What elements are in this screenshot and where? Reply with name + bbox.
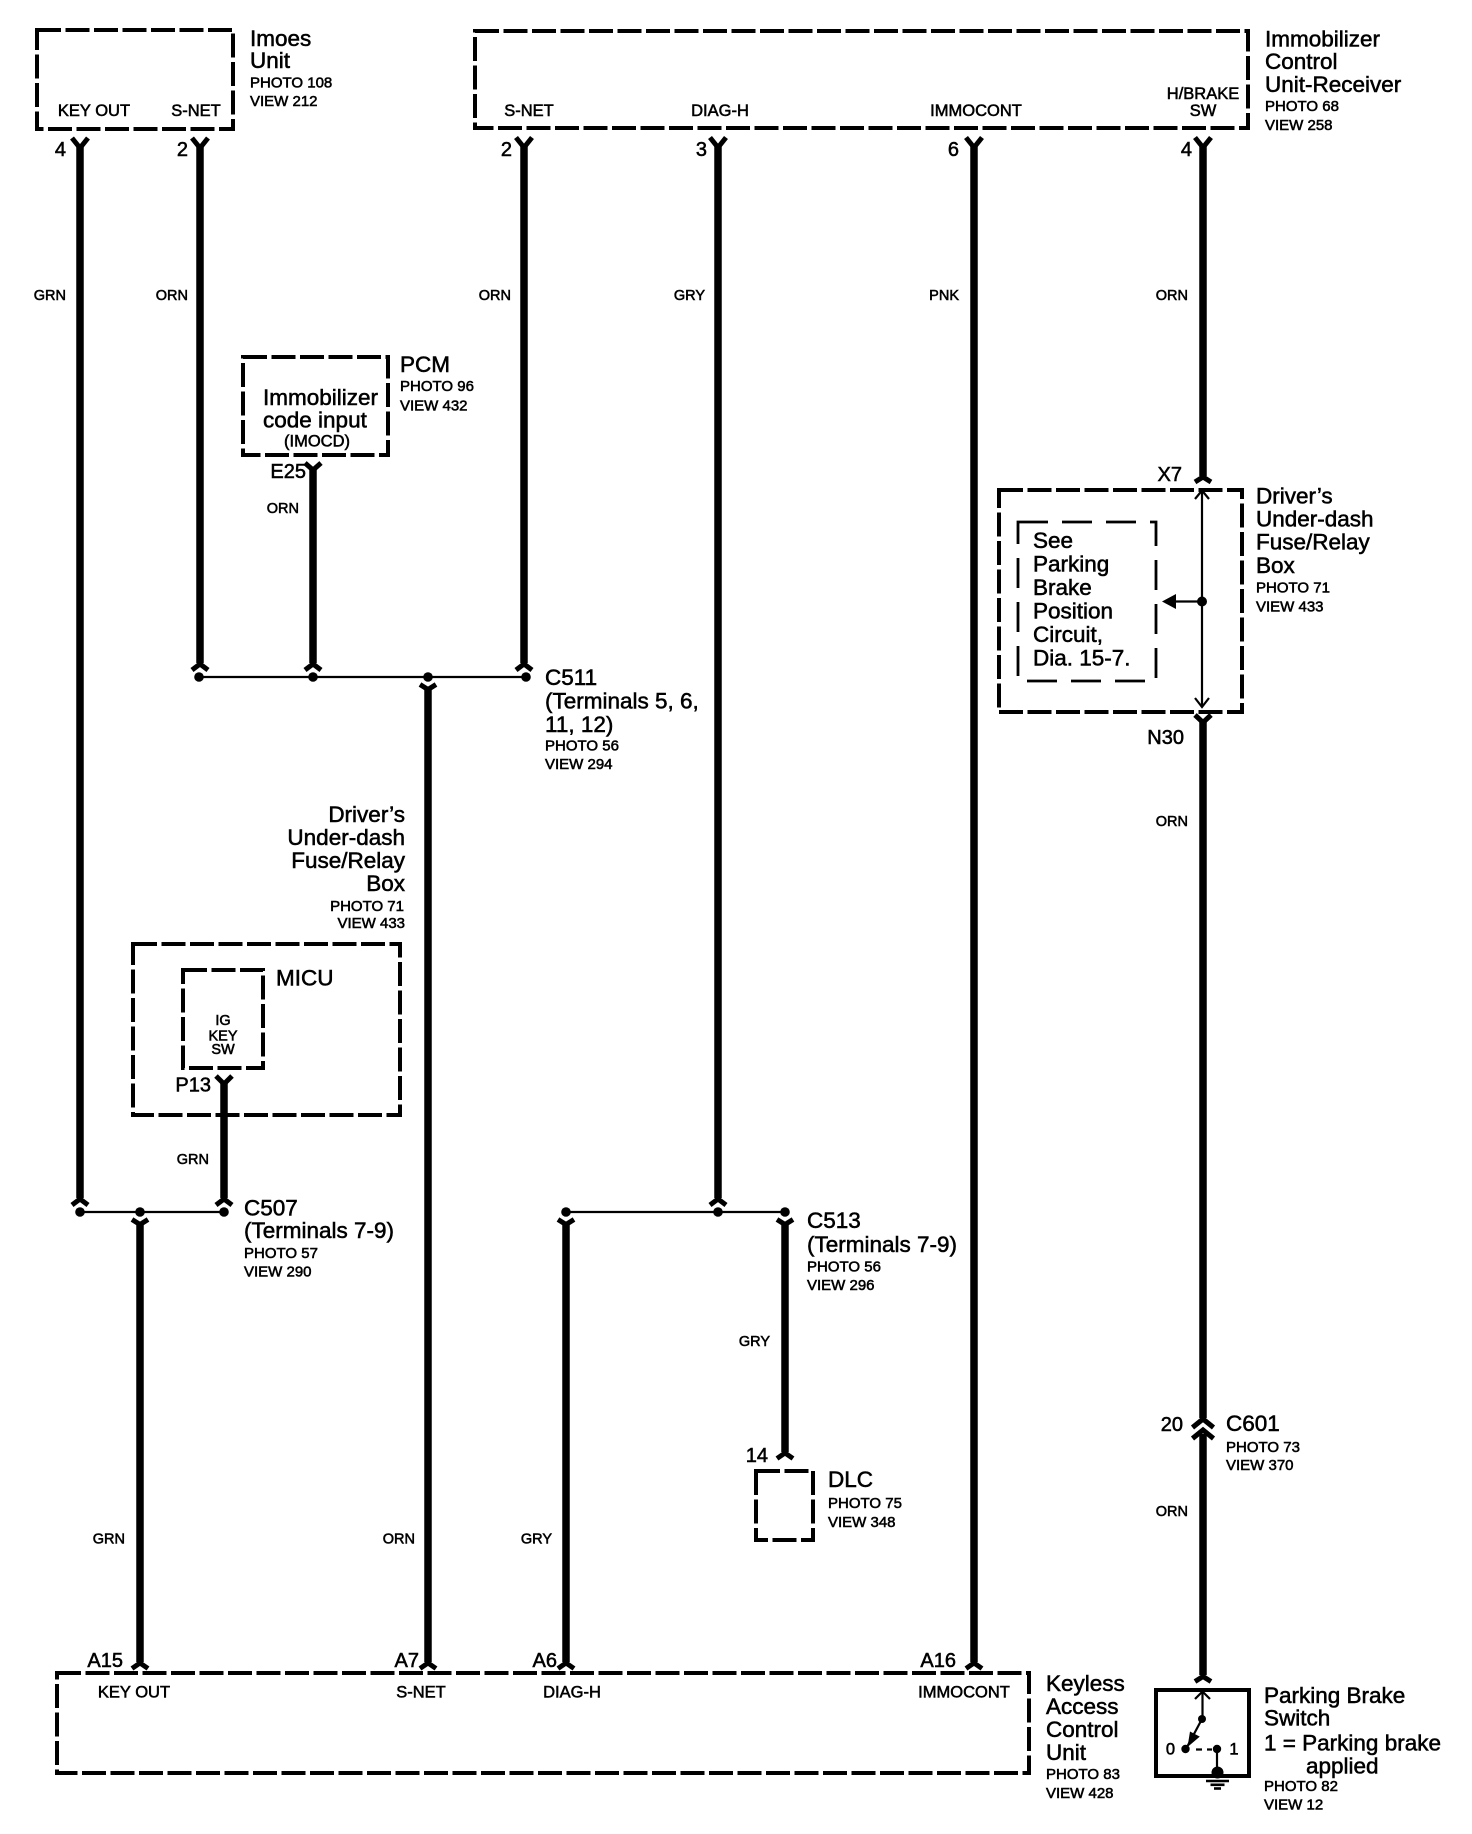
svg-text:(Terminals 7-9): (Terminals 7-9) [807,1232,957,1257]
svg-text:Position: Position [1033,599,1113,624]
C601 connector label [1226,1411,1300,1474]
switch dashed link [1196,1748,1212,1750]
svg-text:DIAG-H: DIAG-H [691,102,749,120]
svg-text:2: 2 [177,139,188,161]
svg-text:GRN: GRN [177,1152,209,1168]
wire from C507 down to A15 [136,1223,144,1662]
svg-text:Dia. 15-7.: Dia. 15-7. [1033,646,1131,671]
wire from C513 down to A6 [562,1223,570,1662]
switch lever arrowhead [1188,1732,1200,1748]
Parking brake switch title label [1264,1683,1441,1814]
svg-text:VIEW 348: VIEW 348 [828,1514,896,1531]
C511 wire-end arrow at x200 [192,664,208,670]
svg-text:ORN: ORN [1156,814,1188,830]
A16 wire-end arrow [966,1663,982,1669]
svg-text:A6: A6 [533,1650,557,1672]
DLC wire-end arrow [777,1453,793,1459]
svg-text:PHOTO 57: PHOTO 57 [244,1245,318,1262]
svg-text:VIEW 433: VIEW 433 [337,915,405,932]
svg-text:Unit: Unit [250,48,291,73]
svg-text:DIAG-H: DIAG-H [543,1684,601,1702]
switch pivot dot [1198,1715,1206,1723]
svg-text:ORN: ORN [267,501,299,517]
MICU inner label IG KEY SW [208,1013,237,1058]
svg-text:PNK: PNK [929,288,959,304]
switch internal top line with up arrow [1195,1692,1210,1720]
svg-text:Switch: Switch [1264,1706,1330,1731]
svg-text:VIEW 433: VIEW 433 [1256,599,1324,616]
svg-text:PHOTO 108: PHOTO 108 [250,75,332,92]
svg-text:C511: C511 [545,665,597,690]
Imoes Unit title label [250,26,332,110]
svg-text:3: 3 [696,139,707,161]
svg-text:Immobilizer: Immobilizer [263,385,379,410]
C507 wire-end arrow at x224 [216,1199,232,1205]
svg-text:GRY: GRY [739,1334,770,1350]
wire ORN from receiver H/BRAKE SW pin 4 [1199,145,1207,477]
svg-text:PHOTO 75: PHOTO 75 [828,1495,902,1512]
svg-text:ORN: ORN [1156,288,1188,304]
svg-text:PHOTO 83: PHOTO 83 [1046,1766,1120,1783]
svg-text:KEY OUT: KEY OUT [98,1684,170,1702]
svg-text:See: See [1033,528,1073,553]
ground connection dot [1212,1767,1224,1779]
svg-text:Immobilizer: Immobilizer [1265,27,1381,52]
C507 junction dot right [219,1207,229,1217]
svg-text:4: 4 [55,139,66,161]
svg-text:2: 2 [501,139,512,161]
svg-text:PHOTO 71: PHOTO 71 [330,898,404,915]
svg-text:14: 14 [746,1445,768,1467]
svg-text:0: 0 [1166,1741,1175,1759]
C511 wire-end arrow at x313 [305,664,321,670]
svg-text:PHOTO 96: PHOTO 96 [400,378,474,395]
svg-text:1: 1 [1229,1741,1238,1759]
svg-text:Parking Brake: Parking Brake [1264,1683,1405,1708]
svg-text:Parking: Parking [1033,552,1109,577]
C511 junction dot at output wire [423,672,433,682]
internal arrow to parking brake circuit note [1162,594,1202,609]
svg-text:Keyless: Keyless [1046,1671,1125,1696]
DLC box [756,1471,813,1540]
Receiver title label [1265,27,1402,135]
node C513 junction line [565,1211,786,1213]
wire from C511 down to A7 [424,688,432,1662]
svg-text:VIEW 258: VIEW 258 [1265,117,1333,134]
svg-text:A16: A16 [920,1650,956,1672]
svg-text:Access: Access [1046,1694,1119,1719]
svg-text:Under-dash: Under-dash [287,825,405,850]
MICU pin P13 connector arrow [216,1076,232,1084]
PCM pin E25 connector arrow [305,463,321,470]
svg-text:S-NET: S-NET [396,1684,446,1702]
C511 junction dot left [194,672,204,682]
svg-text:PHOTO 82: PHOTO 82 [1264,1778,1338,1795]
C511 output arrow down [420,685,436,690]
Parking brake switch box [1156,1690,1249,1776]
left fuse/relay box title label [287,802,405,932]
svg-text:PHOTO 56: PHOTO 56 [807,1259,881,1276]
Driver's under-dash fuse/relay box (left) [133,944,400,1115]
svg-text:H/BRAKE: H/BRAKE [1167,85,1239,103]
svg-text:VIEW 296: VIEW 296 [807,1277,875,1294]
svg-text:S-NET: S-NET [504,102,554,120]
right fuse box title label [1256,484,1374,616]
svg-text:X7: X7 [1158,464,1182,486]
svg-text:4: 4 [1181,139,1192,161]
switch contact 1 dot [1213,1745,1221,1753]
svg-text:SW: SW [1190,102,1217,120]
C513 junction dot right [780,1207,790,1217]
svg-text:GRN: GRN [93,1532,125,1548]
connector C601 double arrow [1193,1419,1214,1439]
Receiver pin 6 connector arrow [966,138,982,148]
node C511 junction line [199,676,526,678]
Driver's under-dash fuse/relay box (right) [999,490,1242,712]
svg-text:VIEW 432: VIEW 432 [400,398,468,415]
ground symbol [1206,1781,1229,1789]
C507 junction dot left [75,1207,85,1217]
svg-text:GRY: GRY [674,288,705,304]
svg-text:Brake: Brake [1033,575,1092,600]
wire GRY from receiver DIAG-H pin 3 [714,145,722,1199]
A6 wire-end arrow [558,1663,574,1669]
wire GRY from C513 to DLC [781,1223,789,1452]
svg-text:C507: C507 [244,1196,298,1221]
Imoes pin 4 connector arrow [72,138,88,148]
svg-text:ORN: ORN [1156,1504,1188,1520]
svg-text:S-NET: S-NET [171,102,221,120]
svg-text:KEY OUT: KEY OUT [58,102,130,120]
svg-text:IG: IG [215,1013,230,1029]
svg-text:Box: Box [366,871,406,896]
svg-text:VIEW 370: VIEW 370 [1226,1457,1294,1474]
Receiver pin 2 connector arrow [516,138,532,148]
Imoes Unit U1 box [37,30,233,129]
C513 connector label [807,1208,957,1294]
C507 output arrow down [132,1220,148,1225]
C511 connector label [545,665,699,773]
wire ORN from PCM E25 [309,468,317,663]
svg-text:Control: Control [1265,49,1338,74]
svg-text:P13: P13 [175,1075,211,1097]
svg-text:A15: A15 [87,1650,123,1672]
svg-text:Unit: Unit [1046,1740,1087,1765]
svg-text:GRN: GRN [34,288,66,304]
svg-text:C513: C513 [807,1208,861,1233]
N30 connector arrow [1195,715,1211,723]
see parking brake note text [1033,528,1131,671]
svg-text:PCM: PCM [400,352,450,377]
svg-text:Control: Control [1046,1717,1119,1742]
switch lever [1187,1719,1203,1748]
wire ORN from C601 down [1199,1434,1207,1675]
svg-text:Driver’s: Driver’s [1256,484,1333,509]
Receiver pin 3 connector arrow [710,138,726,148]
svg-text:ORN: ORN [479,288,511,304]
svg-text:PHOTO 68: PHOTO 68 [1265,98,1339,115]
wire ORN from receiver S-NET pin 2 [520,145,528,664]
A7 wire-end arrow [420,1663,436,1669]
X7 wire-end arrow [1195,477,1211,482]
Receiver pin label H/BRAKE SW [1167,85,1239,120]
svg-text:Circuit,: Circuit, [1033,622,1103,647]
C507 connector label [244,1196,394,1281]
svg-text:Fuse/Relay: Fuse/Relay [1256,530,1371,555]
svg-text:VIEW 428: VIEW 428 [1046,1785,1114,1802]
svg-text:C601: C601 [1226,1411,1280,1436]
svg-text:VIEW 294: VIEW 294 [545,756,613,773]
switch contact 0 dot [1181,1745,1189,1753]
svg-text:SW: SW [211,1042,235,1058]
svg-text:VIEW 12: VIEW 12 [1264,1797,1323,1814]
PCM title label [400,352,474,415]
svg-text:20: 20 [1161,1414,1183,1436]
wire PNK from receiver IMMOCONT pin 6 [970,145,978,1663]
svg-text:Driver’s: Driver’s [328,802,405,827]
C511 junction dot at E25 wire [308,672,318,682]
wire ORN from Imoes pin 2 [196,145,204,663]
svg-text:Unit-Receiver: Unit-Receiver [1265,72,1402,97]
svg-text:N30: N30 [1147,727,1184,749]
C513 junction dot middle [713,1207,723,1217]
C513 junction dot left [561,1207,571,1217]
C507 wire-end arrow at x80 [72,1199,88,1205]
svg-text:IMMOCONT: IMMOCONT [930,102,1022,120]
wire GRN from Imoes pin 4 [76,145,84,1198]
Keyless Access Control Unit box [57,1673,1029,1773]
C511 wire-end arrow at x524 [516,664,532,670]
svg-text:1 = Parking brake: 1 = Parking brake [1264,1731,1441,1756]
svg-text:VIEW 290: VIEW 290 [244,1264,312,1281]
svg-text:(Terminals 7-9): (Terminals 7-9) [244,1218,394,1243]
C513 output arrow down right [777,1220,793,1225]
svg-text:IMMOCONT: IMMOCONT [918,1684,1010,1702]
svg-text:Under-dash: Under-dash [1256,507,1374,532]
wire GRN from P13 [220,1081,228,1198]
svg-text:Fuse/Relay: Fuse/Relay [291,848,406,873]
C513 wire-end arrow at x718 [710,1199,726,1205]
svg-text:applied: applied [1306,1754,1379,1779]
PCM box [243,357,388,455]
A15 wire-end arrow [132,1663,148,1669]
svg-text:DLC: DLC [828,1467,873,1492]
C507 junction dot middle [135,1207,145,1217]
svg-text:E25: E25 [270,461,306,483]
MICU box [183,970,263,1068]
wire ORN from N30 down [1199,720,1207,1418]
svg-text:PHOTO 56: PHOTO 56 [545,738,619,755]
svg-text:11, 12): 11, 12) [545,712,613,737]
svg-text:ORN: ORN [156,288,188,304]
svg-text:code input: code input [263,408,368,433]
see parking brake note box [1018,522,1156,681]
fuse box internal line with arrows [1195,491,1209,708]
C513 output arrow down left [558,1220,574,1225]
node C507 junction line [79,1211,225,1213]
switch wire to ground [1216,1749,1218,1770]
Imoes pin 2 connector arrow [192,138,208,148]
svg-text:MICU: MICU [276,966,334,991]
svg-text:GRY: GRY [521,1532,552,1548]
svg-text:VIEW 212: VIEW 212 [250,93,318,110]
svg-text:6: 6 [948,139,959,161]
svg-text:A7: A7 [395,1650,419,1672]
svg-text:(IMOCD): (IMOCD) [284,433,350,451]
DLC title label [828,1467,902,1531]
Receiver pin 4 connector arrow [1195,138,1211,148]
PCM inner label Immobilizer code input (IMOCD) [263,385,379,451]
svg-text:ORN: ORN [383,1532,415,1548]
keyless title label [1046,1671,1125,1802]
svg-text:PHOTO 71: PHOTO 71 [1256,580,1330,597]
Parking brake switch S1 arrow into box [1195,1677,1211,1682]
svg-text:PHOTO 73: PHOTO 73 [1226,1439,1300,1456]
svg-text:Box: Box [1256,553,1296,578]
svg-text:(Terminals 5, 6,: (Terminals 5, 6, [545,689,699,714]
internal junction dot [1197,597,1207,607]
C511 junction dot right [521,672,531,682]
Immobilizer Control Unit-Receiver U2 box [475,31,1248,128]
